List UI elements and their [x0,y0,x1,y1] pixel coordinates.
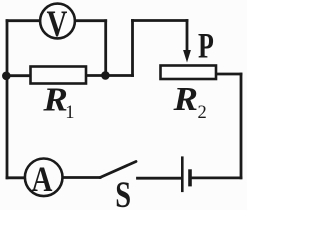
svg-text:V: V [47,5,68,45]
label R1 [42,80,68,118]
svg-text:P: P [198,25,214,65]
wire ammeter to switch pivot [63,176,101,179]
svg-text:1: 1 [65,103,74,123]
wire R2 right stub [217,73,242,76]
resistor R1 [31,67,87,84]
switch S label [115,176,131,216]
svg-text:A: A [32,160,53,200]
wiper arrowhead [183,50,191,63]
switch S blade [100,162,136,178]
svg-text:R: R [42,80,68,118]
node junction right of R1 [101,71,110,80]
svg-text:R: R [172,79,198,117]
wire voltmeter right to corner [76,19,106,22]
wire top-left to voltmeter [7,19,40,22]
wire junction to R1 left stub [6,74,30,77]
label P [198,25,214,65]
wire R1 right stub to junction [87,74,105,77]
wire left vertical side [6,21,9,178]
voltmeter V [40,4,75,45]
wire right vertical side [240,74,243,178]
wire voltmeter lead down to junction [104,21,107,76]
node junction left of R1 [2,72,11,81]
wire wiper drop [186,21,189,53]
wire battery to switch contact [138,177,183,180]
svg-text:S: S [115,176,131,210]
battery long plate [181,156,184,192]
svg-text:2: 2 [198,103,207,123]
wire junction to riser [105,74,132,77]
wire bottom-left corner to ammeter [7,176,25,179]
wire bottom-right to battery [191,176,241,179]
rheostat R2 [161,66,217,80]
wire riser up [131,21,134,76]
battery short plate [188,169,192,186]
wire top span to wiper [133,19,188,22]
label R2 [172,79,198,117]
ammeter A [25,159,63,200]
